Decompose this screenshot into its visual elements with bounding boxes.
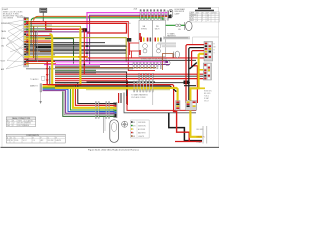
wire black h22 (55, 72, 127, 104)
svg-text:TACH: TACH (1, 30, 7, 33)
left callout labels (1, 23, 10, 71)
svg-text:LIGHTS: LIGHTS (138, 136, 145, 138)
wire red h5 (26, 34, 52, 36)
svg-text:B: B (11, 137, 12, 139)
table 1 bottom-left (6, 117, 35, 127)
svg-text:12: 12 (207, 18, 209, 20)
right bundle: red 2 (192, 51, 204, 103)
svg-text:12: 12 (207, 16, 209, 18)
radio brown box (162, 54, 173, 70)
wire gray h12 (26, 47, 80, 49)
svg-text:Figure B-16. 2000 Ultra Radio: Figure B-16. 2000 Ultra Radio Instrument… (88, 148, 140, 151)
wire black h20 (55, 65, 100, 67)
black stub (186, 102, 196, 104)
bundle end connector (114, 102, 117, 117)
svg-text:SPEEDOMETER: SPEEDOMETER (141, 58, 155, 60)
right connector labels (214, 44, 217, 55)
wire black mid bus to right (55, 86, 176, 92)
page border frame (2, 7, 219, 147)
right connector column lower (203, 63, 211, 80)
wire black h10 (26, 43, 80, 45)
svg-text:MAIN TO: MAIN TO (30, 85, 38, 88)
component box top (speedo sensor) (40, 8, 47, 12)
wire red mid bus to right (48, 85, 174, 110)
rainbow bundle: purple (43, 91, 115, 114)
top-right indicator capsule (169, 9, 173, 17)
junction dark (83, 28, 88, 31)
red arrow mark (46, 68, 49, 71)
wire gray h36 (26, 36, 52, 38)
yellow branch lower (192, 87, 205, 89)
wire red h29 (45, 28, 84, 30)
svg-text:QTY: QTY (212, 13, 215, 15)
gauge B pins (155, 38, 157, 42)
svg-text:V: V (216, 13, 217, 15)
wire purple h4 (26, 31, 90, 33)
red verticals into gauge A (129, 43, 131, 55)
bottom border rule (1, 146, 220, 148)
text right of gauge B (167, 33, 176, 40)
wire purple mid bus (100, 64, 170, 66)
svg-text:E: E (33, 137, 34, 139)
pin legend table mid-bottom (131, 120, 150, 138)
wire red thin top (26, 21, 155, 70)
ignition red step wire (174, 110, 190, 142)
svg-text:MOLEX: MOLEX (18, 123, 25, 125)
red short drop left (118, 93, 120, 103)
wire overlays over brackets (95, 13, 169, 117)
wire green h-top (26, 21, 40, 23)
wire gray h16 (26, 54, 55, 56)
wire dark h51 (26, 50, 126, 52)
bracket bars overlay (96, 10, 168, 119)
wire gray h25 (26, 24, 52, 26)
rainbow bundle: blue (43, 89, 115, 111)
wire black top mid bus (87, 81, 156, 83)
key switch wires (102, 117, 104, 133)
wire magenta top (87, 13, 167, 62)
middle gauge connector brackets top (140, 10, 169, 20)
red arrow mark3 (46, 80, 49, 83)
gauge A red side marks (139, 33, 141, 40)
right connector column upper (204, 42, 213, 62)
dark blob component (127, 38, 131, 42)
ign connector pin stack A (176, 101, 180, 111)
bundle connector bracket (40, 84, 42, 92)
wire red main top (26, 23, 127, 33)
ignition red low bus (175, 141, 202, 143)
ignition yellow top cap (189, 105, 192, 108)
gauge B coil symbol (156, 44, 161, 49)
gauge A pins (140, 37, 142, 43)
top-right table title (195, 8, 214, 12)
wire olive mid thin (86, 89, 170, 91)
right bundle: yellow (190, 54, 204, 108)
wire gray h13 (26, 49, 126, 51)
svg-text:COMPONENTS: COMPONENTS (26, 135, 40, 137)
key switch capsule (110, 120, 119, 143)
pin table color chips (131, 121, 133, 136)
svg-text:SPEED: SPEED (141, 28, 148, 30)
bundle connector brackets mid (95, 102, 96, 119)
wire green top (31, 18, 175, 26)
vertical yellow main (79, 28, 81, 86)
wire red h8 (26, 40, 52, 42)
right text block (204, 91, 212, 103)
black short drop left (120, 93, 122, 103)
wire black bus (26, 59, 196, 61)
rainbow bundle: gray (64, 91, 114, 114)
antenna drop (40, 91, 42, 102)
ignition connector bracket (202, 126, 204, 144)
wire yellow mid bus to right (55, 88, 178, 110)
wire red right bus (88, 57, 208, 59)
mid connector row brackets (y63-68) (133, 62, 161, 68)
wire red h3 (26, 30, 52, 32)
wire darkgreen h7 (45, 38, 74, 40)
right area frame corner (193, 37, 219, 44)
black branch lower (184, 85, 196, 87)
svg-text:OIL: OIL (1, 46, 4, 48)
speaker circle inside (165, 60, 170, 65)
ignition black step wire (169, 113, 202, 141)
svg-text:ACCESS: ACCESS (138, 128, 146, 131)
gauge box B (153, 20, 166, 57)
vertical red x84 (83, 29, 85, 74)
wire black h24 (55, 82, 190, 84)
wire orange h18 (26, 63, 56, 65)
vertical gray2 (36, 26, 38, 62)
svg-text:FUEL: FUEL (190, 18, 194, 20)
instrument box red line (127, 96, 196, 110)
wire gray h45 (26, 44, 126, 46)
wire teal bus (55, 75, 204, 77)
svg-text:8: 8 (13, 125, 14, 127)
svg-text:IGNITION: IGNITION (197, 137, 206, 139)
red wires into gauge A (129, 42, 139, 44)
wire olive (26, 26, 80, 28)
svg-text:FUEL: FUEL (15, 140, 19, 142)
vertical darkgreen x31 (30, 22, 32, 44)
svg-text:BATTERY: BATTERY (138, 132, 147, 135)
svg-text:TO AUDIO: TO AUDIO (30, 78, 39, 81)
svg-text:SPEEDO: SPEEDO (190, 14, 197, 16)
rainbow bundle: black top (55, 83, 115, 104)
svg-text:IGN SW: IGN SW (48, 140, 54, 142)
instrument box outline (124, 93, 196, 113)
svg-text:FLHT: FLHT (3, 9, 9, 11)
svg-text:CP: CP (207, 13, 209, 15)
svg-text:FUEL: FUEL (1, 38, 6, 40)
wire stem from sensor (42, 13, 44, 22)
junction blob black (184, 81, 190, 85)
wire black h15 (26, 52, 126, 54)
wire orange top (34, 16, 168, 20)
lamp oval large (186, 21, 193, 30)
red arrow mark2 (46, 74, 49, 77)
vertical dark1 (35, 31, 37, 60)
connector J1 left pin strip (24, 18, 29, 68)
vertical yellow x29 (28, 22, 30, 57)
bracket caps (140, 10, 165, 11)
rainbow bundle: red (43, 85, 115, 106)
svg-text:IGNITION: IGNITION (138, 126, 146, 128)
vertical black x50 (49, 66, 51, 84)
svg-text:12: 12 (13, 123, 15, 125)
gray vertical right of fan (152, 92, 154, 105)
wire black h42 (52, 42, 105, 44)
junction dots (86, 45, 88, 47)
ign connector pin stack B (186, 101, 197, 111)
wire green h2 (26, 29, 52, 31)
wire dkgreen h73 (55, 69, 96, 71)
svg-text:GN LT: GN LT (204, 101, 209, 103)
svg-text:12: 12 (207, 14, 209, 16)
gauge A coil symbol (143, 44, 148, 49)
top-right table grid (189, 12, 219, 22)
svg-text:GN GREEN: GN GREEN (3, 18, 14, 20)
rainbow bundle: green (43, 88, 115, 110)
capsule label (175, 8, 186, 15)
wire yellow h6 (26, 38, 50, 40)
legend strips right-mid (158, 42, 176, 44)
wire orange h9 (26, 42, 52, 44)
svg-text:TYPE: TYPE (18, 120, 22, 122)
lamp socket circles (176, 24, 179, 27)
wire brown mid bus (55, 67, 156, 69)
svg-text:TACHOMETER: TACHOMETER (155, 57, 168, 60)
wire red riser x45.7 (45, 21, 47, 29)
svg-text:DASH CONNECTORS: DASH CONNECTORS (12, 117, 31, 120)
svg-text:12: 12 (207, 20, 209, 22)
yellow stub to lower connector (199, 69, 204, 71)
svg-text:GROUND: GROUND (138, 122, 146, 124)
svg-text:F: F (41, 137, 42, 139)
dark component on green (168, 15, 172, 18)
right bundle: black (189, 48, 204, 100)
vertical yellow left (50, 34, 56, 86)
svg-text:SPEEDO: SPEEDO (1, 23, 9, 25)
purple connector dot (166, 61, 169, 63)
wire yellow thick bus (26, 56, 88, 58)
wire red h23 (55, 81, 128, 105)
svg-text:12-PLACE CONN: 12-PLACE CONN (131, 96, 146, 99)
svg-text:OIL: OIL (33, 140, 36, 142)
svg-text:VOLT: VOLT (1, 61, 7, 63)
table row text (190, 12, 217, 22)
wire red bus r1 (55, 73, 204, 75)
vertical red left (46, 62, 49, 85)
text under inline connector (131, 94, 148, 99)
wire gray h21 (26, 68, 133, 70)
svg-text:PL: PL (13, 120, 15, 122)
table 2 bottom-left (6, 134, 65, 143)
ignition yellow wire (190, 108, 202, 137)
black elbow right (189, 63, 197, 69)
green wire to lamp (181, 24, 185, 26)
wire brown h14 (26, 50, 52, 52)
wire magenta bus (55, 61, 167, 63)
wire black h11 (26, 45, 127, 47)
wire red h17 (26, 58, 52, 60)
wire purple top (90, 15, 167, 64)
svg-text:R BAT: R BAT (197, 141, 203, 144)
svg-text:TACH: TACH (155, 27, 160, 30)
speaker oval right (175, 51, 179, 58)
black heavy step1 (36, 46, 52, 48)
right bundle: red 1 (186, 45, 204, 103)
svg-text:LAMP: LAMP (175, 12, 181, 15)
gauge box A (139, 20, 153, 57)
rainbow bundle: yellow (43, 86, 115, 107)
wire red h-extra (26, 61, 55, 63)
vertical brown (33, 26, 35, 58)
wire gray h1 (26, 28, 52, 30)
legend text block top-left (3, 12, 26, 20)
leader lines fan (6, 20, 24, 69)
ignition labels (197, 129, 206, 144)
wire red bus r2 (55, 78, 204, 80)
svg-text:VOLT: VOLT (23, 140, 27, 142)
wire olive long (26, 38, 126, 62)
gear symbol (122, 121, 128, 127)
wire magenta h19 (44, 64, 100, 66)
lower connector row brackets (y74-84) (139, 73, 154, 83)
vertical darkgreen mid (73, 39, 75, 64)
rainbow bundle: dkgreen (63, 91, 115, 116)
black heavy step2 (40, 50, 53, 52)
gray band strip (163, 36, 190, 39)
inline connector fan (y82-92) (134, 81, 154, 92)
orange segment on yellow bus (79, 56, 88, 58)
